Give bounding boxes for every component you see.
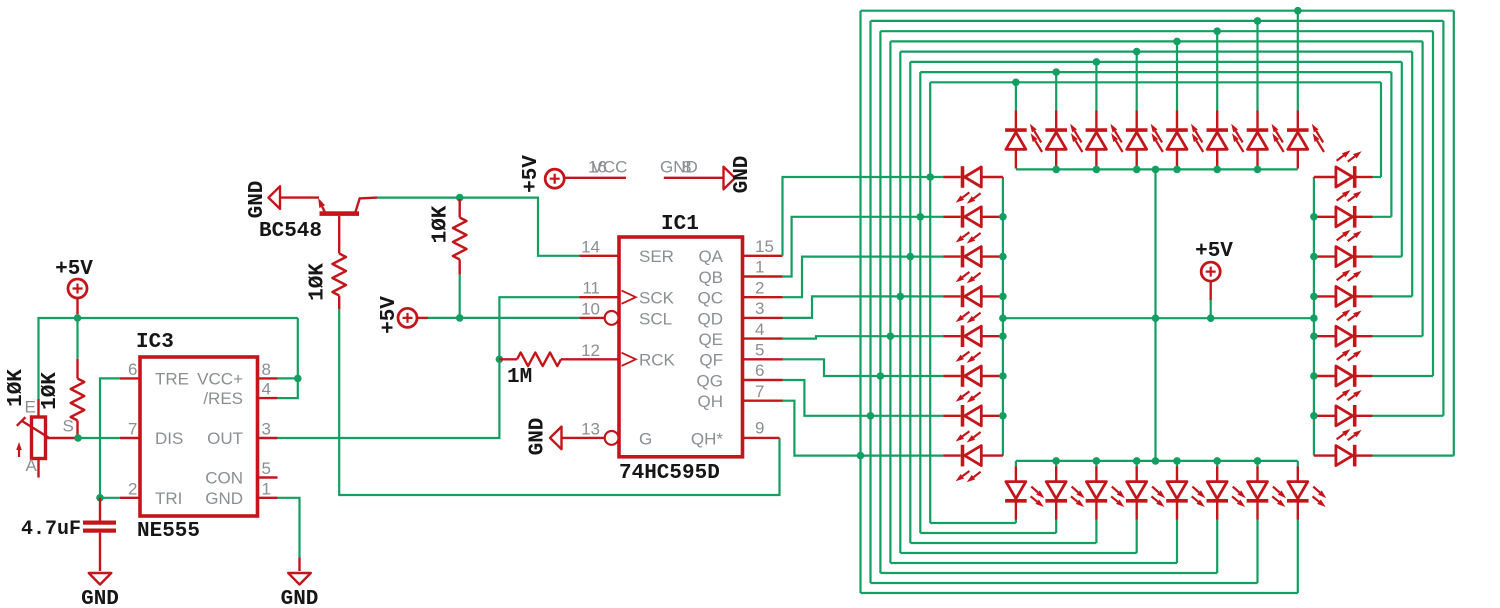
svg-text:+5V: +5V <box>520 155 543 193</box>
svg-text:SER: SER <box>639 247 674 266</box>
svg-text:4: 4 <box>262 380 271 399</box>
svg-text:GND: GND <box>527 418 550 456</box>
svg-text:QG: QG <box>697 371 723 390</box>
svg-text:1ØK: 1ØK <box>39 372 62 410</box>
svg-text:1ØK: 1ØK <box>430 205 453 243</box>
svg-text:10: 10 <box>581 299 600 318</box>
svg-text:4: 4 <box>755 320 764 339</box>
svg-text:RCK: RCK <box>639 351 676 370</box>
svg-text:QH: QH <box>698 392 724 411</box>
svg-text:8: 8 <box>262 360 271 379</box>
svg-text:8: 8 <box>682 158 691 177</box>
svg-text:5: 5 <box>755 341 764 360</box>
svg-text:4.7uF: 4.7uF <box>21 518 81 541</box>
svg-text:2: 2 <box>755 278 764 297</box>
svg-text:QE: QE <box>698 330 723 349</box>
svg-text:GND: GND <box>281 588 319 608</box>
svg-text:IC3: IC3 <box>136 331 174 354</box>
svg-text:+5V: +5V <box>1195 240 1233 263</box>
svg-text:BC548: BC548 <box>259 220 322 243</box>
svg-text:6: 6 <box>128 360 137 379</box>
svg-text:QD: QD <box>698 309 724 328</box>
svg-text:11: 11 <box>582 279 600 298</box>
svg-text:1M: 1M <box>507 366 532 389</box>
svg-text:G: G <box>639 429 652 448</box>
svg-text:SCK: SCK <box>639 289 675 308</box>
svg-text:QC: QC <box>698 289 724 308</box>
svg-text:TRE: TRE <box>155 369 189 388</box>
svg-text:DIS: DIS <box>155 429 183 448</box>
svg-text:5: 5 <box>262 459 271 478</box>
svg-text:OUT: OUT <box>207 429 243 448</box>
svg-text:GND: GND <box>246 181 269 219</box>
svg-text:QA: QA <box>698 247 723 266</box>
svg-text:CON: CON <box>205 469 243 488</box>
svg-text:GND: GND <box>205 489 243 508</box>
svg-text:13: 13 <box>581 419 600 438</box>
svg-text:3: 3 <box>262 420 271 439</box>
svg-text:+5V: +5V <box>55 258 93 281</box>
svg-text:1ØK: 1ØK <box>307 263 330 301</box>
svg-text:QF: QF <box>699 351 723 370</box>
svg-text:1: 1 <box>755 258 764 277</box>
svg-text:7: 7 <box>128 420 137 439</box>
svg-text:GND: GND <box>660 158 698 177</box>
svg-text:2: 2 <box>128 479 137 498</box>
svg-text:IC1: IC1 <box>661 213 699 236</box>
svg-text:12: 12 <box>581 341 600 360</box>
svg-text:QB: QB <box>698 268 723 287</box>
svg-text:3: 3 <box>755 299 764 318</box>
svg-text:/RES: /RES <box>203 389 243 408</box>
svg-text:7: 7 <box>755 382 764 401</box>
svg-text:VCC: VCC <box>592 158 628 177</box>
svg-text:6: 6 <box>755 361 764 380</box>
svg-text:15: 15 <box>755 237 774 256</box>
svg-text:74HC595D: 74HC595D <box>619 462 720 485</box>
svg-text:QH*: QH* <box>691 429 724 448</box>
svg-text:GND: GND <box>731 156 754 194</box>
svg-text:S: S <box>63 417 74 436</box>
svg-text:NE555: NE555 <box>137 520 200 543</box>
svg-text:A: A <box>26 456 38 475</box>
svg-text:1: 1 <box>262 479 271 498</box>
svg-text:1ØK: 1ØK <box>5 369 28 407</box>
svg-text:SCL: SCL <box>639 309 672 328</box>
svg-text:GND: GND <box>81 588 119 608</box>
svg-text:14: 14 <box>581 237 600 256</box>
svg-text:9: 9 <box>755 419 764 438</box>
svg-text:TRI: TRI <box>155 489 182 508</box>
svg-text:VCC+: VCC+ <box>197 369 243 388</box>
